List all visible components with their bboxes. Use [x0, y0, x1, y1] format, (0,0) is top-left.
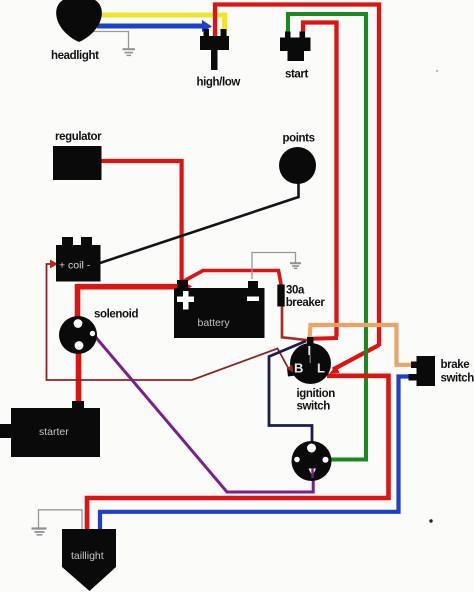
- taillight: [62, 529, 116, 591]
- solenoid: [59, 316, 97, 354]
- wire red battery post to breaker top: [184, 271, 281, 287]
- ignition switch: [290, 343, 331, 384]
- wire dark red breaker bottom to ignition junction: [282, 306, 309, 340]
- wire blue arrowhead: [202, 20, 212, 32]
- kill connector: [292, 441, 332, 481]
- wire black coil to points: [100, 183, 299, 263]
- start button: [280, 38, 311, 52]
- wire red arrowhead at L: [330, 366, 340, 374]
- svg-text:solenoid: solenoid: [94, 309, 138, 321]
- wire red arrowhead into B over circle: [287, 365, 294, 373]
- svg-text:points: points: [283, 133, 315, 145]
- wire yellow headlight to high/low: [95, 15, 225, 36]
- wire green start to kill connector: [288, 14, 366, 460]
- svg-text:battery: battery: [198, 317, 231, 329]
- wire purple solenoid to kill connector: [93, 334, 313, 492]
- svg-text:switch: switch: [297, 401, 331, 413]
- svg-text:high/low: high/low: [197, 77, 241, 89]
- ground headlight: [123, 48, 136, 50]
- ignition switch terminal stub top: [307, 337, 314, 346]
- breaker 30a: [277, 285, 284, 307]
- wire red top bus: [215, 5, 379, 347]
- wire red solenoid to starter: [76, 345, 82, 403]
- ground taillight: [32, 527, 47, 529]
- svg-text:breaker: breaker: [286, 297, 326, 309]
- high/low switch: [200, 36, 229, 50]
- wire red diagonal to ignition L: [333, 345, 379, 370]
- wire gray battery ground: [252, 253, 296, 280]
- wire purple stub: [311, 468, 313, 478]
- svg-text:start: start: [285, 69, 308, 81]
- svg-text:+ coil -: + coil -: [59, 260, 91, 272]
- svg-text:switch: switch: [441, 373, 474, 385]
- wire red main bus battery to solenoid: [78, 287, 187, 323]
- wire red start to ignition junction: [303, 23, 337, 337]
- wire red regulator to battery post: [101, 161, 182, 281]
- kill connector bottom notch: [309, 469, 317, 477]
- coil C1: [56, 245, 101, 282]
- svg-text:taillight: taillight: [71, 550, 104, 562]
- wire blue brake switch to taillight: [100, 377, 409, 531]
- brake switch: [417, 356, 436, 386]
- svg-text:30a: 30a: [286, 285, 305, 297]
- svg-text:L: L: [317, 361, 325, 376]
- svg-text:B: B: [294, 361, 303, 376]
- wire orange ignition to brake switch: [310, 325, 412, 365]
- wire red bend into junction: [311, 336, 338, 341]
- headlight: [56, 0, 102, 42]
- wire thin dark red coil to ignition B: [47, 264, 290, 380]
- wire gray taillight ground: [39, 510, 83, 529]
- wire red ignition L to taillight: [87, 376, 389, 530]
- starter: [11, 408, 100, 457]
- svg-text:I: I: [308, 343, 312, 358]
- ground battery: [290, 262, 301, 264]
- points: [279, 147, 316, 184]
- svg-text:regulator: regulator: [55, 131, 102, 143]
- stray faint dot: [436, 70, 438, 72]
- wire gray headlight ground: [88, 32, 129, 49]
- wire navy ignition to kill connector: [269, 341, 312, 445]
- svg-text:ignition: ignition: [297, 388, 336, 400]
- regulator: [53, 146, 102, 180]
- svg-text:starter: starter: [39, 426, 69, 438]
- wire blue headlight to high/low: [97, 24, 203, 29]
- wire red arrowhead at battery post: [183, 282, 192, 292]
- stray dot: [429, 519, 432, 522]
- svg-text:headlight: headlight: [51, 50, 99, 62]
- wire red arrowhead at coil: [50, 260, 58, 269]
- ignition switch terminal stub B: [287, 367, 296, 377]
- svg-text:brake: brake: [441, 359, 470, 371]
- battery: [174, 288, 265, 338]
